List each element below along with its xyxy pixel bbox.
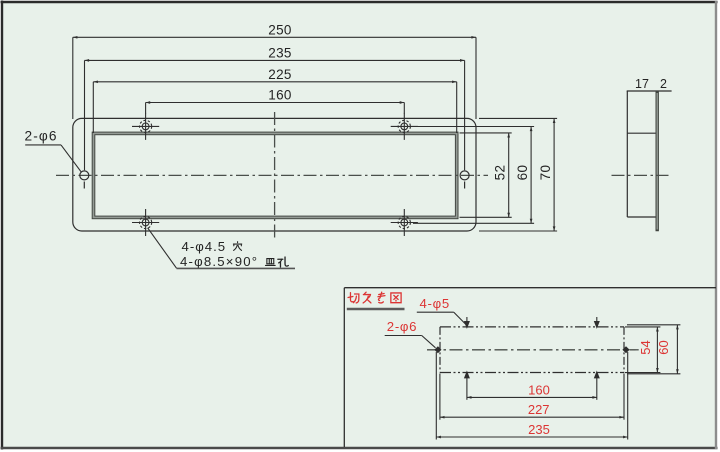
dimension 227 arrows [440,416,445,419]
cutout rect phantom top [440,326,624,328]
svg-text:235: 235 [528,422,550,437]
dimension 250 line [73,37,476,119]
phi5 hole mark bottom-left [465,372,470,400]
dimension 235 cutout [436,352,627,440]
screw hole bottom-right [391,209,418,236]
svg-text:2: 2 [660,77,667,91]
svg-text:70: 70 [538,165,553,181]
dimension 160 arrows [146,101,151,104]
screw hole bottom-left [132,209,159,236]
svg-text:227: 227 [528,402,550,417]
phi6 hole mark left [434,346,441,353]
dimension 52 arrows [507,133,510,138]
countersink label underline [177,267,296,269]
pin hole left (2-phi6) [80,171,89,189]
svg-text:160: 160 [268,88,291,103]
title underline [347,308,405,311]
vertical centerline [274,112,276,238]
dimension 225 arrows [93,80,98,83]
plate outline 250x70 [73,118,476,231]
kanji sara (dish) [265,259,275,266]
dimension 225 line [93,82,456,133]
dimension 54 arrows [656,327,659,332]
svg-text:2-φ6: 2-φ6 [387,319,417,334]
recess rect light core [94,133,457,217]
dimension 250 arrows [73,36,78,39]
dimension 52 line [460,133,512,217]
cutout box left edge [343,288,345,447]
cutout rect phantom right [623,327,625,373]
svg-text:2-φ6: 2-φ6 [25,128,58,143]
dimension 60 cutout arrows [676,325,679,330]
svg-text:235: 235 [268,46,291,61]
dimension 160 cutout arrows [467,396,472,399]
screw hole top-left [132,113,159,140]
dimension 60 cutout [627,325,680,374]
kanji kou (bore) [278,257,288,267]
svg-text:54: 54 [638,340,653,354]
phi6 hole mark right [622,346,629,353]
side dim line 17/2 [627,90,672,92]
dimension 60 arrows [530,127,533,132]
dimension 160 cutout [467,396,597,398]
dimension 70 arrows [553,118,556,123]
cutout rect phantom left [439,327,441,373]
label 2-phi6 leader [25,145,81,172]
svg-text:4-φ8.5×90°: 4-φ8.5×90° [180,254,258,269]
dimension 235 line [85,60,465,170]
frame right edge [715,1,717,449]
side plate bar dark [656,91,659,231]
side plate bar core [656,93,658,230]
phi5 hole mark bottom-right [595,372,600,400]
frame top edge [1,1,718,3]
title kirikaki-zu (cutout diagram) [348,292,401,303]
dimension 235 cutout arrows [436,436,441,439]
dimension 160 line [146,103,405,114]
screw hole top-right [391,113,418,140]
frame bottom edge [1,447,718,449]
svg-text:4-φ4.5: 4-φ4.5 [182,239,227,254]
dimension 235 arrows [85,59,90,62]
cutout box top edge [344,287,716,289]
dimension 54 [625,327,660,373]
pin hole right (2-phi6) [460,171,469,189]
svg-text:225: 225 [268,67,291,82]
svg-text:17: 17 [635,77,649,91]
svg-text:60: 60 [656,340,671,354]
phi5 hole mark top-left [465,317,470,328]
side body outline [627,91,656,217]
svg-text:250: 250 [268,23,291,38]
dimension 227 [440,374,624,420]
kanji ana (hole) [233,242,241,251]
label 4-phi5 leader [417,312,466,325]
cutout rect phantom bottom [440,372,624,374]
svg-text:160: 160 [528,382,550,397]
recess rect dark band 225x52 [94,133,457,217]
side view centerline [612,174,669,176]
dimension 70 line [479,118,557,231]
dimension 60 line [413,127,534,224]
horizontal centerline [56,174,488,176]
cutout centerline [427,349,639,351]
label 2-phi6 leader [385,336,436,348]
svg-text:4-φ5: 4-φ5 [420,296,450,311]
svg-text:60: 60 [515,165,530,181]
frame left edge [1,1,3,450]
countersink leader line [148,228,177,268]
svg-text:52: 52 [493,165,508,181]
phi5 hole mark top-right [595,317,600,328]
